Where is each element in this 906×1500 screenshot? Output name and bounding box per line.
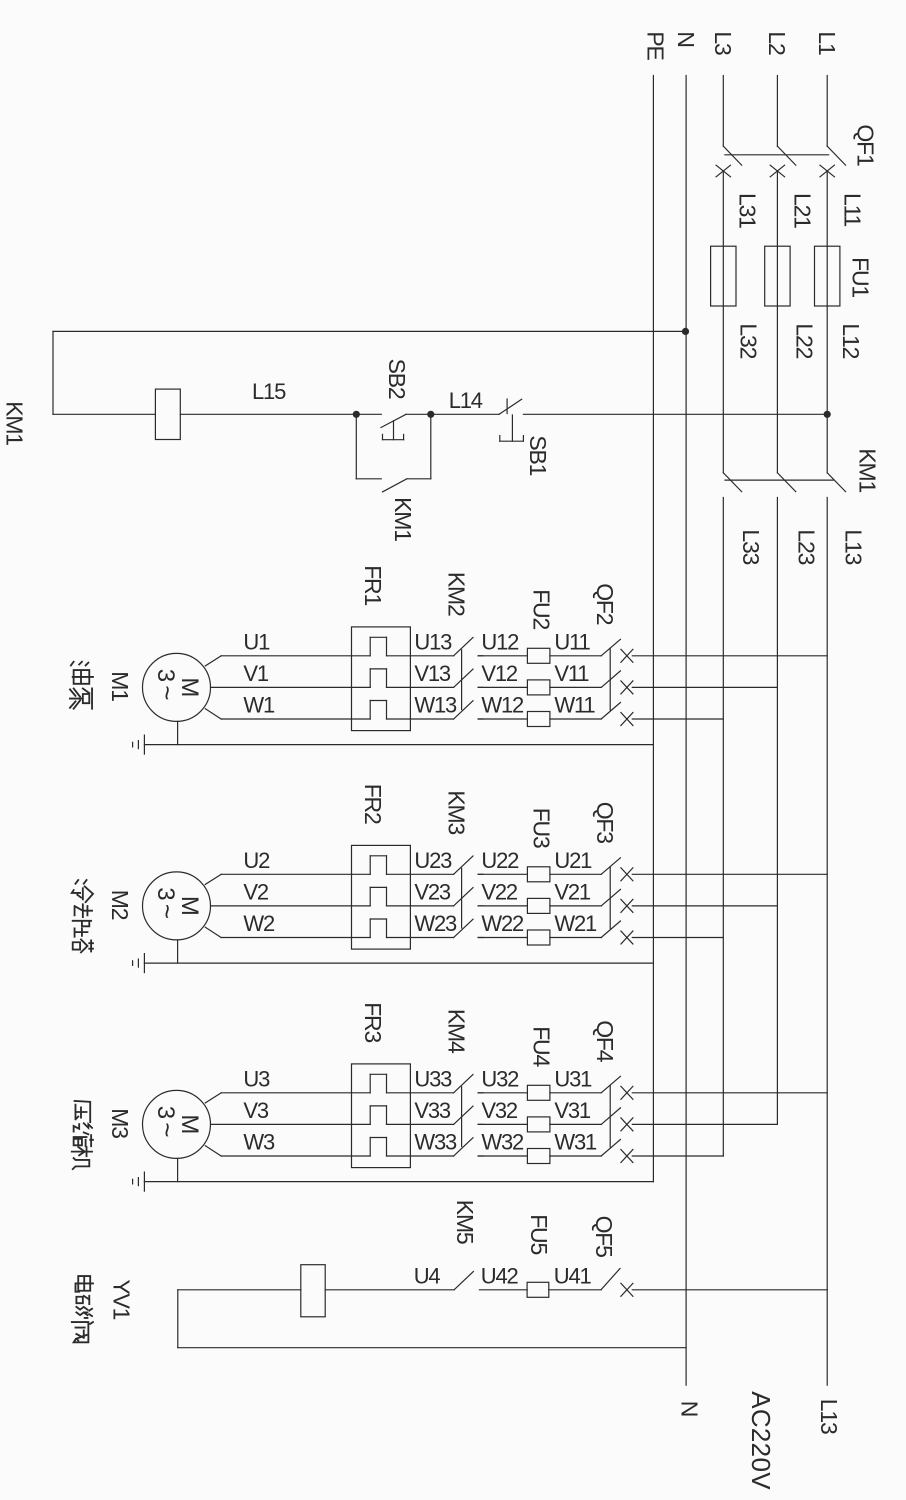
wire label L23 [794,529,820,564]
svg-text:U41: U41 [554,1263,592,1288]
svg-text:L13: L13 [840,529,866,564]
wire label U32 [481,1066,519,1091]
svg-text:QF3: QF3 [592,802,618,844]
net label PE [643,31,669,60]
svg-text:SB2: SB2 [384,359,410,399]
label YV1 [108,1279,134,1319]
svg-text:QF1: QF1 [853,124,879,166]
rail N [685,76,687,1386]
rail PE [652,76,654,1182]
wire label L15 [252,379,286,404]
svg-text:KM1: KM1 [2,401,28,445]
label 压缩机 (chinese) [72,1101,93,1169]
wire V13 segment [410,686,453,688]
svg-text:V11: V11 [554,661,589,686]
wire label L21 [790,193,816,228]
svg-text:V3: V3 [243,1098,268,1123]
junction on rail N [682,328,689,335]
wire V3 lead [211,1123,352,1125]
wire W22 segment [478,937,527,939]
svg-text:W21: W21 [554,911,597,936]
contactor KM2 contacts [454,638,483,720]
contactor KM1 main contacts (3-pole) [723,473,845,492]
svg-text:N: N [673,31,699,46]
wire W12 segment [478,718,527,720]
wire label L14 [449,388,483,413]
svg-text:M1: M1 [107,671,133,701]
wire label U1 [243,629,270,654]
wire V1 lead [211,686,352,688]
rail L3 mid segment [722,171,724,473]
label FR1 [360,565,386,605]
wire label U21 [554,848,592,873]
svg-text:M2: M2 [107,890,133,920]
wire label U22 [481,848,519,873]
wire label V11 [554,661,589,686]
svg-text:U23: U23 [414,848,452,873]
wire label W32 [481,1130,524,1155]
motor M3 (3-phase) [143,1090,211,1158]
svg-text:QF4: QF4 [592,1020,618,1063]
rail L3 upper segment [722,76,724,147]
label KM1 (coil) [2,401,28,445]
svg-text:U2: U2 [243,848,270,873]
wire QF5 to L1 [632,1289,827,1291]
svg-text:W12: W12 [481,693,524,718]
motor M2 (3-phase) [143,872,211,940]
wire V21 to L2 [632,905,777,907]
wire YV1 return to N [178,1347,686,1349]
svg-text:KM4: KM4 [444,1009,470,1054]
svg-text:V33: V33 [414,1098,451,1123]
label FR2 [360,784,386,824]
svg-text:V32: V32 [481,1098,518,1123]
wire YV1 return drop [177,1290,179,1348]
svg-text:W31: W31 [554,1130,597,1155]
pushbutton SB1 (stop, NC) [499,399,523,441]
label KM5 [452,1200,478,1244]
wire label L33 [738,529,764,564]
ground (frame of M1) to PE [133,721,654,754]
wire W23 segment [410,937,453,939]
wire label L32 [736,323,762,358]
motor M1 (3-phase) [143,653,211,721]
svg-text:W2: W2 [243,911,275,936]
wire label U11 [554,629,590,654]
wire label U31 [554,1066,592,1091]
svg-text:FR3: FR3 [360,1002,386,1042]
svg-text:U1: U1 [243,629,270,654]
net label N (bottom) [677,1401,703,1416]
label FU5 [526,1214,552,1254]
contactor KM5 contact [454,1272,527,1290]
solenoid coil YV1 [301,1265,325,1317]
svg-text:L2: L2 [764,31,790,55]
wire label V3 [243,1098,268,1123]
label FU3 [529,808,555,848]
svg-text:V12: V12 [481,661,518,686]
svg-text:L14: L14 [449,388,483,413]
rail L3 lower segment [722,498,724,1157]
wire label L22 [791,323,817,358]
svg-text:W13: W13 [414,693,457,718]
fuse FU5 [527,1282,601,1297]
svg-text:U42: U42 [481,1263,519,1288]
svg-text:U32: U32 [481,1066,519,1091]
rail L2 upper segment [776,76,778,147]
svg-text:FR2: FR2 [360,784,386,824]
svg-text:PE: PE [643,31,669,60]
svg-text:FU5: FU5 [526,1214,552,1254]
svg-text:FU4: FU4 [529,1026,555,1067]
svg-text:V23: V23 [414,879,451,904]
wire V31 to L2 [632,1123,777,1125]
wire label U41 [554,1263,592,1288]
label FR3 [360,1002,386,1042]
svg-text:FR1: FR1 [360,565,386,605]
wire label V1 [243,661,268,686]
circuit breaker QF1 (3-pole) [716,146,846,177]
net label L2 [764,31,790,55]
net label L3 [710,31,736,55]
svg-text:L3: L3 [710,31,736,55]
wire label V31 [554,1098,591,1123]
svg-text:U3: U3 [243,1066,270,1091]
svg-text:W1: W1 [243,693,275,718]
svg-text:L11: L11 [839,193,865,226]
wire label W33 [414,1130,457,1155]
wire L14 segment [431,413,499,415]
svg-text:U13: U13 [414,629,452,654]
svg-text:3: 3 [152,1106,179,1119]
svg-text:V21: V21 [554,879,591,904]
svg-text:L15: L15 [252,379,286,404]
coil KM1 [155,389,180,439]
svg-text:W32: W32 [481,1130,524,1155]
svg-text:V22: V22 [481,879,518,904]
wire label V32 [481,1098,518,1123]
fuse FU4 (3x) [527,1085,601,1163]
contactor KM4 contacts [454,1075,483,1157]
svg-text:KM1: KM1 [854,448,880,492]
svg-text:L33: L33 [738,529,764,564]
svg-text:W11: W11 [554,693,595,718]
wire U33 segment [410,1092,453,1094]
wire W31 to L3 [632,1155,723,1157]
wire W2 lead [205,927,351,937]
pushbutton SB2 (start, NO) [381,414,431,439]
junction on rail L1 [824,411,831,418]
svg-text:~: ~ [153,1122,183,1137]
label QF2 [592,583,618,625]
wire label U3 [243,1066,270,1091]
wire label L13 [840,529,866,564]
svg-text:U22: U22 [481,848,519,873]
wire U32 segment [478,1092,527,1094]
label SB1 [525,435,551,475]
svg-text:SB1: SB1 [525,435,551,475]
wire label W11 [554,693,595,718]
svg-text:KM2: KM2 [444,572,470,616]
label 油泵 (chinese) [70,662,93,709]
rail L2 mid segment [776,171,778,473]
svg-text:V13: V13 [414,661,451,686]
label KM4 [444,1009,470,1054]
svg-text:L1: L1 [814,31,840,55]
wire V32 segment [478,1123,527,1125]
wire W33 segment [410,1155,453,1157]
svg-text:U31: U31 [554,1066,592,1091]
svg-text:W3: W3 [243,1130,275,1155]
wire U1 lead [205,656,351,666]
wire V22 segment [478,905,527,907]
svg-text:W33: W33 [414,1130,457,1155]
svg-text:3: 3 [152,669,179,682]
wire label L12 [838,323,864,358]
label QF5 [591,1216,617,1258]
svg-text:YV1: YV1 [108,1279,134,1319]
wire label U2 [243,848,270,873]
svg-text:V31: V31 [554,1098,591,1123]
wire V2 lead [211,905,352,907]
wire U11 to L1 [632,655,827,657]
label SB2 [384,359,410,399]
wire label L31 [735,193,761,228]
svg-text:L13: L13 [816,1399,842,1434]
circuit breaker QF5 [601,1269,633,1297]
rail L1 mid segment [826,171,828,473]
wire label V21 [554,879,591,904]
fuse FU3 (3x) [527,867,601,945]
wire label V22 [481,879,518,904]
svg-text:W23: W23 [414,911,457,936]
wire U22 segment [478,873,527,875]
label FU2 [529,589,555,629]
wire label U42 [481,1263,519,1288]
junction node B [427,411,434,418]
thermal overload relay FR2 [352,845,411,949]
wire label U4 [414,1263,441,1288]
rail L1 upper segment [826,76,828,147]
label KM2 [444,572,470,616]
label KM1 (aux contact) [390,497,416,541]
wire U3 lead [205,1093,351,1103]
wire W32 segment [478,1155,527,1157]
net label N [673,31,699,46]
label 电磁阀 (chinese) [72,1276,93,1342]
svg-text:QF5: QF5 [591,1216,617,1258]
svg-text:~: ~ [153,904,183,919]
net label L13 (bottom) [816,1399,842,1434]
wire label V2 [243,879,268,904]
svg-text:L12: L12 [838,323,864,358]
svg-text:V2: V2 [243,879,268,904]
svg-text:L22: L22 [791,323,817,358]
junction node A [353,411,360,418]
svg-text:L32: L32 [736,323,762,358]
svg-text:N: N [677,1401,703,1416]
svg-text:U12: U12 [481,629,519,654]
net label L1 [814,31,840,55]
circuit breaker QF4 (3-pole) [601,1076,633,1162]
contactor KM3 contacts [454,856,483,938]
label QF3 [592,802,618,844]
wire label V23 [414,879,451,904]
wire coil to KM5 [325,1289,454,1291]
wire U23 segment [410,873,453,875]
svg-text:L23: L23 [794,529,820,564]
wire W13 segment [410,718,453,720]
wire SB1 to L1 [523,413,827,415]
aux contact KM1 (hold-in) [356,414,431,492]
wire label W13 [414,693,457,718]
wire V23 segment [410,905,453,907]
svg-text:L21: L21 [790,193,816,228]
wire YV1 left [178,1289,301,1291]
wire W3 lead [205,1146,351,1156]
label M1 [107,671,133,701]
wire label W3 [243,1130,275,1155]
wire label V13 [414,661,451,686]
wire to KM1 coil [53,413,155,415]
fuse FU1 (3x) [711,246,840,306]
svg-text:M3: M3 [107,1108,133,1138]
circuit breaker QF3 (3-pole) [601,858,633,944]
svg-text:U21: U21 [554,848,592,873]
wire L15 segment [180,413,356,415]
wire label W1 [243,693,275,718]
wire U13 segment [410,655,453,657]
wire label W22 [481,911,524,936]
svg-text:U4: U4 [414,1263,441,1288]
wire label W31 [554,1130,597,1155]
circuit breaker QF2 (3-pole) [601,639,633,725]
thermal overload relay FR1 [352,627,411,731]
wire label U13 [414,629,452,654]
wire W21 to L3 [632,937,723,939]
label FU4 [529,1026,555,1067]
wire U12 segment [478,655,527,657]
label KM3 [444,790,470,834]
wire W1 lead [205,709,351,719]
ground (frame of M2) to PE [133,940,654,973]
wire U31 to L1 [632,1092,827,1094]
wire N-tap horizontal [53,330,686,332]
wire U21 to L1 [632,873,827,875]
wire U2 lead [205,874,351,884]
svg-text:3: 3 [152,887,179,900]
wire label V12 [481,661,518,686]
wire label W23 [414,911,457,936]
wire label L11 [839,193,865,226]
label 冷却塔 (chinese) [72,880,93,952]
wire label U23 [414,848,452,873]
wire V11 to L2 [632,686,777,688]
wire label V33 [414,1098,451,1123]
wire left drop [52,331,54,414]
wire label W2 [243,911,275,936]
svg-text:L31: L31 [735,193,761,228]
svg-text:KM3: KM3 [444,790,470,834]
wire V33 segment [410,1123,453,1125]
wire label W12 [481,693,524,718]
rail L1 lower segment [826,498,828,1386]
wire SB2 left stub [356,413,381,415]
svg-text:AC220V: AC220V [746,1391,776,1490]
svg-text:V1: V1 [243,661,268,686]
label KM1 (main contacts) [854,448,880,492]
svg-text:KM5: KM5 [452,1200,478,1244]
svg-text:U11: U11 [554,629,590,654]
label QF4 [592,1020,618,1063]
svg-text:~: ~ [153,685,183,700]
svg-text:FU1: FU1 [848,257,874,297]
svg-text:U33: U33 [414,1066,452,1091]
rail L2 lower segment [776,498,778,1125]
label M2 [107,890,133,920]
wire V12 segment [478,686,527,688]
svg-text:KM1: KM1 [390,497,416,541]
svg-text:W22: W22 [481,911,524,936]
wire label W21 [554,911,597,936]
wire W11 to L3 [632,718,723,720]
svg-text:QF2: QF2 [592,583,618,625]
label M3 [107,1108,133,1138]
label QF1 [853,124,879,166]
label AC220V [746,1391,776,1490]
svg-text:FU2: FU2 [529,589,555,629]
wire label U33 [414,1066,452,1091]
label FU1 [848,257,874,297]
svg-text:FU3: FU3 [529,808,555,848]
fuse FU2 (3x) [527,648,601,726]
wire label U12 [481,629,519,654]
thermal overload relay FR3 [352,1064,411,1168]
ground (frame of M3) to PE [133,1158,654,1191]
